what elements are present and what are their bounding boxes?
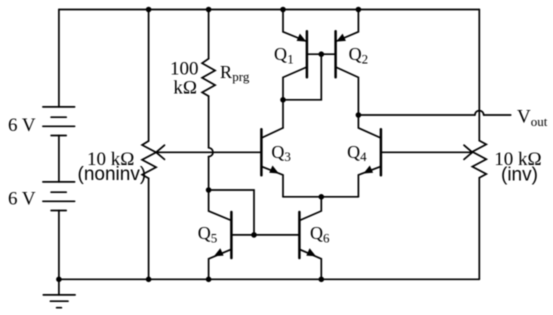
node Q1 Q2 base junction [319,51,325,57]
battery B1 6 V [43,107,75,136]
inv wiper arrowhead [464,145,472,159]
wire bottom rail [59,278,479,280]
svg-text:(noninv): (noninv) [78,164,147,185]
transistor Q4 (NPN) [358,115,381,197]
node Q2 emitter on rail [356,7,362,13]
node Q2 collector / Vout [356,112,362,118]
transistor Q2 (PNP) [336,10,359,116]
svg-text:Q: Q [274,44,287,64]
svg-text:6: 6 [323,231,330,246]
wire noninv pot top lead [148,10,150,142]
svg-text:4: 4 [360,149,367,164]
svg-text:5: 5 [211,231,218,246]
svg-text:V: V [517,106,531,127]
svg-text:kΩ: kΩ [173,78,197,99]
svg-text:Q: Q [310,223,323,243]
wire noninv wiper to Q3 base [156,151,261,153]
svg-text:(inv): (inv) [501,164,538,185]
wire base junction down to Q1 collector [283,54,321,100]
ground [43,279,75,307]
wire Q1 Q2 base tie [307,53,336,55]
transistor Q1 (PNP) [283,10,307,100]
battery B2 6 V [43,182,75,211]
resistor R_prg 100 kOhm zigzag [202,59,215,96]
wire left edge top [58,10,60,107]
wire battery B2 to bottom rail [58,211,60,280]
node Q5 emitter on rail [206,277,212,283]
wire R_prg bottom lead with hop over wiper line [208,96,210,148]
svg-text:Q: Q [349,44,362,64]
node noninv pot top on rail [146,7,152,13]
svg-text:out: out [531,114,548,129]
node Q1 collector / diode tie [280,97,286,103]
svg-text:2: 2 [362,51,369,66]
svg-text:6 V: 6 V [8,189,36,210]
svg-text:1: 1 [287,51,294,66]
svg-text:Q: Q [198,223,211,243]
wire Q1 collector to Q3 collector [282,100,284,128]
svg-text:R: R [220,62,232,82]
node tail / Q6 collector [319,194,325,200]
wire right edge above inv pot [478,10,480,141]
wire Q5 Q6 base line [231,234,299,236]
node Q6 emitter on rail [319,277,325,283]
node R_prg / Q5 collector junction [206,187,212,193]
wire inv wiper from Q4 base [381,151,472,153]
wire top rail [59,9,479,11]
node ground junction [56,277,62,283]
svg-text:3: 3 [284,149,291,164]
wire R_prg top lead [208,10,210,59]
transistor Q3 (NPN) [261,128,283,197]
potentiometer 10 kOhm (noninv) zigzag [142,141,156,178]
svg-text:6 V: 6 V [8,115,36,136]
noninv wiper arrowhead [156,145,164,159]
transistor Q5 (NPN mirror master) [209,190,232,279]
transistor Q6 (NPN mirror output) [299,197,321,279]
svg-text:Q: Q [347,142,360,162]
wire Vout with hop over right edge [358,114,475,116]
potentiometer 10 kOhm (inv) zigzag [472,141,486,178]
wire mirror tie jog to Q5 Q6 base line [209,190,254,235]
node Q1 emitter on rail [280,7,286,13]
svg-text:prg: prg [232,69,250,84]
node Q5 Q6 base junction [251,232,257,238]
svg-text:100: 100 [170,59,199,80]
node noninv pot bottom on rail [146,277,152,283]
wire right edge below inv pot [478,178,480,280]
node R_prg top on rail [206,7,212,13]
wire differential tail [283,196,358,198]
wire noninv pot bottom lead [148,178,150,279]
wire between batteries [58,136,60,182]
svg-text:Q: Q [271,142,284,162]
